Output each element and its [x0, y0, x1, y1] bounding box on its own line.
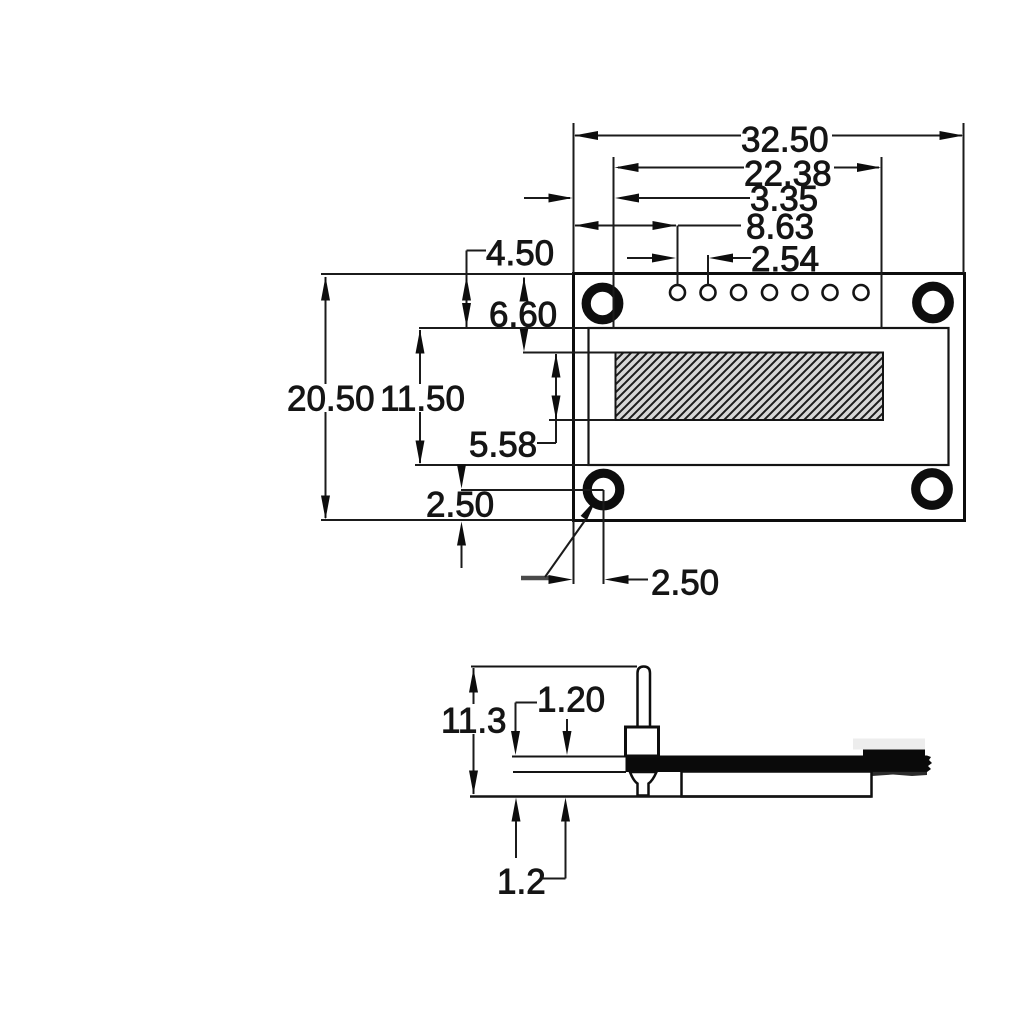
svg-text:5.58: 5.58	[469, 426, 537, 465]
svg-text:20.50: 20.50	[287, 380, 375, 419]
svg-text:2.50: 2.50	[651, 564, 719, 603]
svg-text:1.2: 1.2	[497, 863, 546, 902]
svg-text:2.54: 2.54	[751, 240, 819, 279]
svg-text:1.20: 1.20	[537, 681, 605, 720]
svg-text:4.50: 4.50	[486, 234, 554, 273]
svg-text:11.50: 11.50	[380, 380, 465, 419]
svg-text:11.3: 11.3	[441, 702, 507, 741]
svg-text:2.50: 2.50	[426, 486, 494, 525]
